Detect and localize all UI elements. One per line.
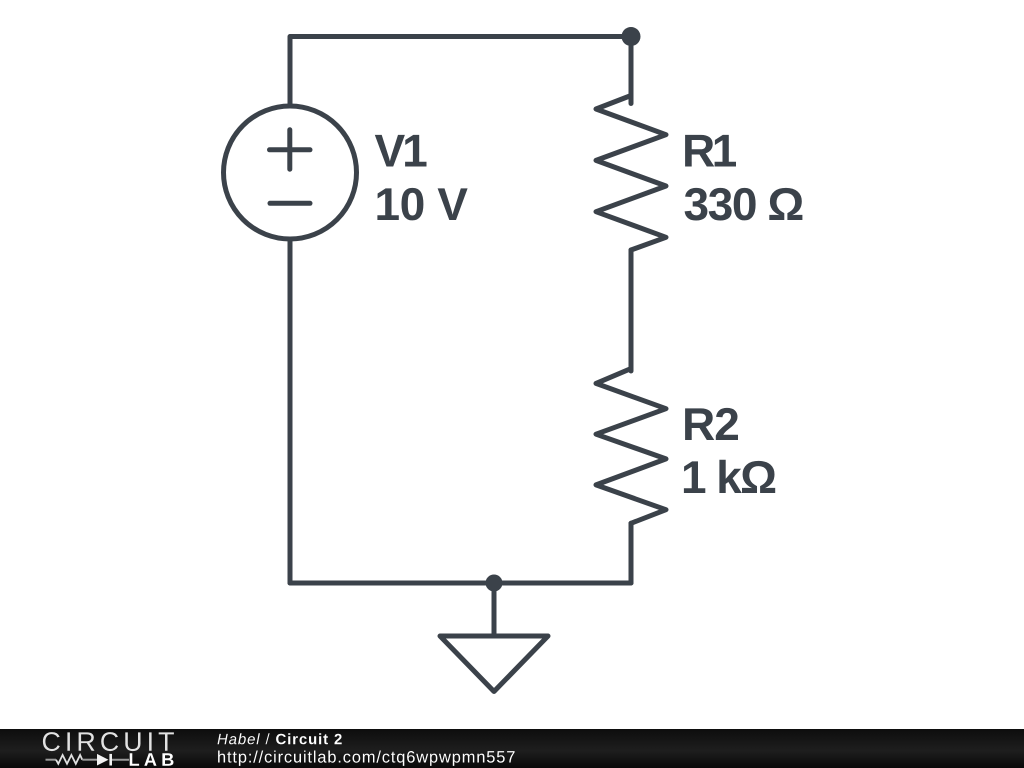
label R1 value 330 ohm — [685, 188, 803, 221]
logo doodle: resistor zigzag — [56, 755, 82, 764]
ground stem — [492, 583, 497, 634]
wire: bottom rail from right corner to left corner — [290, 581, 631, 586]
footer attribution bar — [0, 729, 1024, 768]
footer title: Habel / Circuit 2 — [218, 733, 342, 744]
label V1 name — [375, 135, 427, 167]
ground symbol triangle — [440, 636, 548, 692]
CircuitLab logo wordmark LAB — [130, 753, 174, 766]
V1 minus sign — [270, 201, 310, 206]
wire: R1 bottom to R2 top — [629, 250, 634, 371]
logo doodle: wire — [46, 759, 57, 761]
voltage source V1 — [224, 106, 357, 239]
label R2 value 1 kohm — [684, 460, 775, 493]
wire: V1 bottom terminal down to bottom rail — [288, 241, 293, 583]
label R2 name — [685, 408, 738, 440]
node A junction dot — [622, 27, 641, 46]
logo doodle: wire after diode — [112, 759, 129, 761]
footer url — [218, 751, 514, 766]
resistor R1 — [596, 96, 666, 251]
V1 plus sign — [270, 130, 311, 169]
CircuitLab logo wordmark CIRCUIT — [43, 732, 174, 751]
wire: node A down to R1 top — [629, 37, 634, 104]
logo doodle: wire between resistor and diode — [82, 759, 97, 761]
logo doodle: diode triangle — [97, 754, 109, 766]
ground node junction dot — [486, 575, 503, 592]
label R1 name — [685, 135, 736, 167]
resistor R2 — [596, 369, 666, 524]
label V1 value 10 V — [377, 188, 467, 221]
wire: V1 top terminal up and across to node A — [290, 37, 631, 105]
logo doodle: diode cathode bar — [109, 754, 112, 766]
wire: R2 bottom down to bottom-right corner — [629, 523, 634, 583]
